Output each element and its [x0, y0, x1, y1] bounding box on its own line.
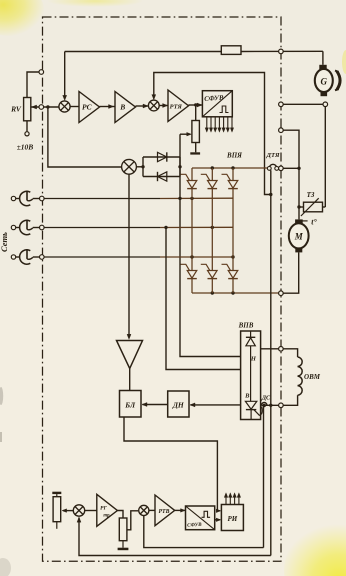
wire phase 3: [44, 256, 160, 258]
wire field tap down (to ВПВ lower): [166, 227, 241, 369]
diode Н bar: [246, 336, 255, 338]
block ВПВ box: [241, 331, 261, 420]
terminal bar pot-B top: [52, 492, 61, 494]
junction T3 tap: [297, 205, 300, 208]
motor M body: [289, 223, 309, 248]
yellow stain top-left: [0, 0, 44, 36]
tachogenerator G bottom terminal: [321, 92, 328, 97]
junction ph1/leg1: [190, 197, 193, 200]
wire ВПВ output to ОВМ: [261, 348, 279, 350]
wire bar to pot-B: [56, 494, 58, 497]
resistor tacho line: [221, 46, 241, 55]
wire to coil: [283, 349, 297, 357]
wire current feedback: [154, 73, 271, 195]
svg-text:РС: РС: [82, 103, 93, 112]
wire inside ВПВ middle: [250, 346, 252, 402]
wire RV wiper: [31, 106, 59, 108]
paper edge mark left: [0, 432, 2, 442]
arrow into РТЯ: [163, 104, 168, 108]
arrow RV wiper: [32, 105, 37, 109]
thyristor VS6 (bottom row): [228, 271, 238, 279]
svg-text:RV: RV: [10, 105, 22, 114]
wire tacho top line: [65, 51, 222, 53]
block РИ box: [221, 505, 243, 531]
block СФУВ-В box: [186, 506, 215, 530]
wire X3 down to amp: [128, 174, 130, 335]
wire feedback L2 (ДТЯ trunk to X4): [79, 518, 271, 556]
block БЛ box: [120, 391, 142, 418]
wire G bottom to frame: [283, 103, 323, 105]
svg-text:В: В: [119, 103, 125, 112]
brush symbol of G: [337, 71, 340, 89]
potentiometer RV: [24, 98, 31, 121]
wire RV bottom: [26, 121, 28, 132]
potentiometer field reference: [53, 497, 61, 522]
wire РТЯ output to pot: [195, 105, 197, 121]
svg-text:РТВ: РТВ: [159, 509, 170, 515]
arrow into СФУВ: [197, 103, 202, 107]
arrow into X1 top: [63, 95, 67, 100]
wire ДН to БЛ: [142, 404, 167, 406]
wire T3 right: [323, 206, 326, 208]
wire motor return: [283, 252, 299, 293]
wire coil return: [283, 395, 297, 405]
yellow stain bottom-right: [284, 524, 346, 576]
wire pot-B bottom stub: [56, 522, 58, 529]
bridge top bus: [192, 167, 269, 169]
svg-text:РГ: РГ: [100, 505, 107, 511]
junction wiper/down-branch: [46, 105, 49, 108]
arrow pot-B wiper: [62, 509, 67, 513]
svg-text:ДТЯ: ДТЯ: [265, 152, 280, 159]
svg-text:СФУВ: СФУВ: [204, 95, 224, 103]
junction ph3/leg1: [190, 255, 193, 258]
op-amp РТЯ (armature current regulator): [168, 90, 189, 122]
grey speck left: [0, 387, 3, 405]
thermal sensor ТЗ box: [304, 202, 323, 212]
bridge leg 2 wire: [211, 168, 213, 180]
potentiometer РТЯ-feedback: [192, 121, 200, 143]
svg-text:М: М: [294, 232, 304, 242]
wire down to G: [322, 51, 324, 65]
junction feedback/ДТЯ trunk: [269, 193, 272, 196]
node frame terminal (field+): [279, 347, 284, 352]
svg-text:±10В: ±10В: [17, 143, 34, 152]
summing junction speed (X1): [59, 101, 70, 112]
wire X5 to РТВ: [149, 509, 155, 511]
svg-text:СФУВ: СФУВ: [187, 522, 202, 529]
svg-text:В: В: [244, 393, 250, 400]
wire X1 to PC: [70, 106, 79, 108]
wire tacho feedback down: [64, 52, 66, 98]
junction trunk/ДС line: [269, 404, 272, 407]
node wiper frame terminal: [39, 105, 44, 110]
thyristor В (field): [245, 401, 256, 409]
pulse arrows РИ to ВПВ: [225, 495, 227, 504]
op-amp В (amplifier): [115, 92, 136, 123]
summing junction field ref (X4): [73, 505, 84, 516]
svg-text:ОВМ: ОВМ: [304, 373, 321, 381]
pulse glyph СФУВ-Я: [220, 106, 229, 113]
wire ДС line: [261, 404, 279, 406]
wire РТВ to СФУВ-В: [175, 509, 186, 511]
wire БЛ to РИ: [124, 417, 220, 511]
T3 influence diagonal: [301, 198, 319, 216]
summing junction field current (X5): [139, 505, 149, 515]
wire B to X2: [136, 105, 149, 107]
grey smudge bottom-left: [0, 558, 11, 576]
node frame terminal (G line): [279, 102, 284, 107]
arrow into СФУВ-В: [181, 509, 186, 513]
thyristor VS2 (top row): [208, 181, 218, 189]
junction top bus leg3: [231, 166, 234, 169]
diode VD1 (top): [158, 152, 167, 161]
terminator bar under pot: [190, 152, 200, 154]
trunk ДС signal down: [263, 406, 265, 548]
wire G down to T3: [324, 107, 326, 207]
arrow into X2: [143, 104, 148, 108]
junction bottom bus leg2: [211, 291, 214, 294]
sensor ДТЯ arch: [269, 164, 276, 168]
wire reference down-branch: [48, 107, 122, 167]
yellow fleck right-edge: [342, 50, 346, 74]
wire phase 1: [44, 198, 160, 200]
junction ph1/sync tap: [178, 197, 181, 200]
summing junction current (X2): [148, 100, 159, 111]
op-amp РС (speed regulator): [79, 92, 100, 123]
wire inside ВПВ top: [250, 331, 252, 337]
wire X4 to РЭ: [85, 510, 97, 512]
down-pointing amplifier: [117, 341, 143, 369]
svg-text:ДС: ДС: [261, 395, 271, 402]
op-amp РТВ (field current regulator): [155, 495, 175, 526]
block СФУВ-Я box: [202, 91, 232, 117]
arrow into X2 top: [152, 95, 156, 100]
bridge leg 1 wire: [191, 168, 193, 180]
node RV top terminal: [39, 70, 44, 75]
block СФУВ-В diagonal: [186, 506, 215, 530]
diode Н (field diode): [246, 338, 255, 346]
wire amp to БЛ: [129, 369, 131, 391]
cabinet frame (dash-dot): [43, 17, 282, 561]
thyristor VS5 (bottom row): [208, 271, 218, 279]
junction diode pair right: [178, 165, 181, 168]
arrow into ДН: [190, 403, 195, 407]
yellow streak top-edge: [47, 0, 143, 7]
mains connector phase 2: [11, 225, 15, 229]
arrow СФУВ-В into РИ: [216, 518, 220, 522]
svg-text:ДН: ДН: [172, 401, 185, 410]
svg-text:G: G: [321, 76, 328, 86]
junction motor branch: [297, 167, 300, 170]
node under G: [323, 102, 328, 107]
node frame terminal (armature-): [279, 291, 284, 296]
arrow БЛ into РИ: [216, 509, 220, 513]
node frame terminal (field-): [279, 403, 284, 408]
arrow PC to B: [109, 105, 114, 109]
wire pot wiper: [180, 133, 190, 135]
junction ph3/leg3: [231, 255, 234, 258]
thyristor VS4 (bottom row): [187, 271, 197, 279]
wire RV top to frame: [27, 72, 39, 98]
node phase 3 frame terminal: [40, 255, 45, 260]
sensor ДС loop: [260, 407, 263, 416]
thyristor VS1 (top row): [187, 181, 197, 189]
wire X4 to pot-B wiper: [63, 510, 73, 512]
tachogenerator G body: [315, 69, 333, 92]
motor M bottom terminal: [295, 248, 302, 252]
wire X2 to РТЯ: [159, 105, 168, 107]
junction ph2/leg2: [211, 226, 214, 229]
svg-text:t°: t°: [311, 218, 317, 227]
node phase 2 frame terminal: [40, 225, 45, 230]
wire ВПВ to ДН: [190, 404, 240, 406]
junction diode pair left: [141, 165, 144, 168]
bridge bottom bus: [192, 292, 281, 294]
field winding ОВМ coil: [298, 357, 303, 367]
wire sync tap down (to ВПВ upper): [180, 134, 241, 356]
wire phase 2: [44, 227, 160, 229]
wire СФУВ-В to РИ: [215, 519, 221, 521]
wire X3 to diode pair: [136, 166, 143, 168]
motor M top terminal: [295, 219, 303, 223]
svg-text:ВПЯ: ВПЯ: [226, 152, 242, 160]
wire T3 left: [299, 206, 304, 208]
svg-text:РИ: РИ: [228, 515, 238, 523]
wire pot2 wiper to X5: [127, 511, 138, 530]
diode pair frame: [143, 156, 180, 158]
node ±10V terminal: [25, 132, 29, 136]
junction top bus leg2: [211, 166, 214, 169]
junction ph2/field tap: [164, 226, 167, 229]
paper tone patches: [0, 0, 346, 300]
wire thyristor cathode: [250, 410, 252, 420]
block ДН box: [168, 391, 189, 417]
thyristor VS3 (top row): [228, 181, 238, 189]
trunk ДТЯ signal down: [270, 170, 272, 555]
wire armature to motor branch: [283, 167, 299, 169]
svg-text:ТЗ: ТЗ: [307, 191, 315, 199]
arrow into X4 bottom: [77, 517, 81, 522]
tachogenerator G top terminal: [319, 65, 326, 70]
pulse glyph СФУВ-В: [202, 511, 211, 517]
svg-text:Сеть: Сеть: [0, 232, 9, 252]
wire pot2 to ground: [122, 541, 124, 548]
svg-text:тр: тр: [103, 514, 110, 519]
junction ДС down: [263, 404, 266, 407]
arrow pot wiper: [187, 132, 192, 136]
op-amp РЭ (emf regulator): [97, 494, 118, 526]
diode VD2 (bottom): [158, 172, 167, 181]
wire РЭ out to pot2: [117, 511, 123, 519]
potentiometer РЭ output: [119, 518, 127, 541]
mains connector phase 1: [11, 196, 15, 200]
arrow into down-amp: [127, 334, 131, 339]
wire tacho line right: [241, 50, 323, 52]
wire feedback L1 (ДС to X5): [144, 516, 264, 548]
T3 diagonal tick: [301, 220, 307, 222]
wire motor top branch: [283, 130, 299, 219]
ground bar: [118, 548, 129, 551]
wire pot to bar: [195, 143, 197, 153]
svg-text:БЛ: БЛ: [124, 400, 136, 409]
block СФУВ-Я diagonal: [202, 91, 232, 117]
gate pulse arrows СФУВ-Я to ВПЯ: [206, 117, 208, 130]
junction РТЯ output: [194, 103, 197, 106]
svg-text:ВПВ: ВПВ: [238, 321, 254, 329]
bridge leg 3 wire: [232, 168, 234, 180]
node frame terminal (armature+): [279, 166, 284, 171]
wire РТЯ to СФУВ: [189, 104, 203, 106]
wire ДТЯ to frame: [278, 167, 280, 169]
wire PC to B: [100, 106, 116, 108]
svg-text:РТЯ: РТЯ: [170, 103, 183, 110]
node frame terminal (motor line): [279, 128, 284, 133]
multiplier junction field (X3): [122, 159, 137, 174]
mains connector phase 3: [11, 255, 15, 259]
junction bottom bus leg3: [231, 291, 234, 294]
arrow into БЛ: [142, 403, 147, 407]
node phase 1 frame terminal: [40, 196, 45, 201]
node tacho frame terminal: [279, 49, 284, 54]
